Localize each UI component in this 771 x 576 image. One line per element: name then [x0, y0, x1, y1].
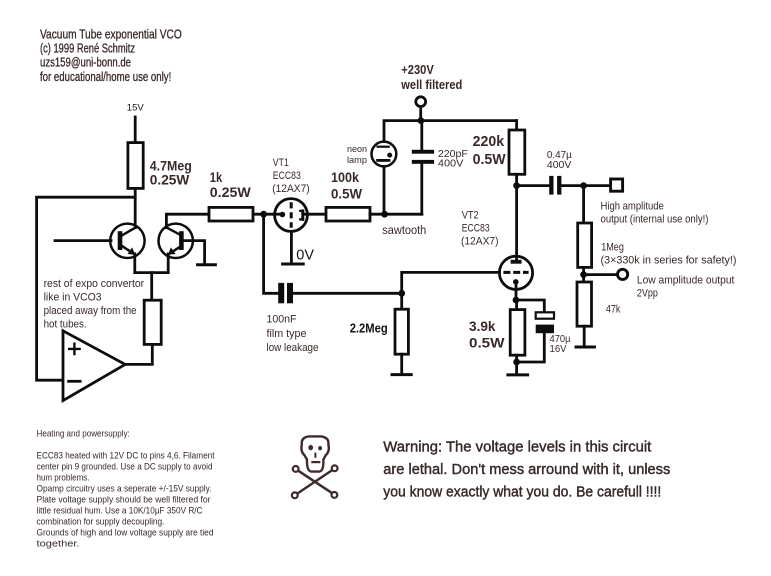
label low amplitude output [637, 275, 735, 300]
label neon lamp [347, 144, 367, 166]
wire Q2 base to ground [184, 241, 205, 264]
svg-text:400V: 400V [547, 160, 572, 171]
node junction below 1k [260, 211, 267, 218]
label title block [40, 27, 182, 84]
label 4.7Meg 0.25W [150, 157, 192, 187]
node after coupling cap [580, 182, 587, 189]
terminal +230V [416, 97, 426, 121]
svg-text:0V: 0V [296, 247, 314, 263]
svg-text:Opamp circuitry uses a seperat: Opamp circuitry uses a seperate +/-15V s… [37, 483, 212, 494]
node grid junction [398, 290, 405, 297]
label high amplitude output [601, 200, 709, 225]
wire Q2 collector to 1k [166, 214, 209, 227]
label 220pF 400V [438, 148, 468, 169]
svg-text:VT2: VT2 [462, 210, 479, 222]
label warning text [383, 438, 670, 500]
wire to low amplitude terminal [584, 273, 618, 276]
svg-text:you know exactly what you do.: you know exactly what you do. Be careful… [383, 484, 661, 501]
svg-text:Warning: The voltage levels in: Warning: The voltage levels in this circ… [383, 438, 652, 455]
svg-text:well filtered: well filtered [400, 78, 462, 92]
wire 100k to sawtooth node [370, 213, 422, 216]
label heating and powersupply note [37, 429, 215, 550]
svg-text:output (internal use only!): output (internal use only!) [601, 213, 709, 225]
resistor 100k 0.5W [326, 207, 370, 221]
ground 47k [576, 346, 594, 349]
svg-text:lamp: lamp [347, 155, 367, 166]
resistor 4.7Meg 0.25W [128, 143, 143, 189]
svg-text:2Vpp: 2Vpp [637, 288, 658, 300]
icon skull and crossbones [292, 436, 338, 498]
wire junction down to 100nF [264, 214, 279, 293]
svg-text:sawtooth: sawtooth [382, 225, 426, 237]
resistor 220k 0.5W [509, 121, 525, 186]
resistor 47k [577, 282, 592, 345]
node below 220k [513, 182, 520, 189]
terminal high amplitude output [611, 179, 623, 191]
svg-text:uzs159@uni-bonn.de: uzs159@uni-bonn.de [40, 55, 131, 69]
svg-text:High amplitude: High amplitude [601, 200, 664, 212]
wire resistor bottom to Q1 collector [134, 188, 137, 227]
svg-text:Low amplitude output: Low amplitude output [637, 275, 735, 287]
ground 3.9k [508, 373, 528, 376]
wire VT2 grid from 100nF node [402, 272, 500, 293]
node VT2 cathode junction [513, 297, 520, 304]
svg-text:(12AX7): (12AX7) [272, 183, 310, 195]
svg-text:neon: neon [347, 144, 367, 155]
wire Q1 base stub [55, 239, 111, 242]
svg-text:220k: 220k [473, 133, 505, 150]
node below 3.9k [513, 359, 520, 366]
svg-text:47k: 47k [606, 303, 621, 315]
svg-text:placed away from the: placed away from the [44, 305, 137, 317]
svg-text:1k: 1k [210, 169, 223, 185]
terminal low amplitude output [618, 269, 628, 279]
label VT2 ECC83 (12AX7) [461, 210, 499, 248]
svg-text:together.: together. [37, 538, 80, 549]
svg-text:3.9k: 3.9k [469, 318, 496, 334]
triode VT2 [499, 256, 532, 300]
wire cathode node to 470u [516, 300, 544, 312]
svg-text:0.25W: 0.25W [150, 172, 190, 188]
wire neon lamp top to HT rail [384, 121, 517, 142]
label 1k 0.25W [210, 169, 252, 200]
node below 1Meg [580, 271, 587, 278]
label 3.9k 0.5W [469, 318, 505, 351]
node HT rail junction [418, 117, 425, 124]
label 470u 16V [550, 334, 571, 355]
svg-text:for educational/home use only!: for educational/home use only! [40, 70, 171, 84]
svg-text:0.5W: 0.5W [331, 186, 363, 202]
svg-text:hot tubes.: hot tubes. [44, 318, 87, 330]
node 15V supply stub [134, 117, 137, 143]
wire sawtooth node up to 220pF [420, 164, 423, 215]
svg-text:like in VCO3: like in VCO3 [44, 291, 102, 303]
svg-text:are lethal. Don't mess arround: are lethal. Don't mess arround with it, … [383, 461, 670, 478]
svg-text:film type: film type [267, 328, 307, 340]
svg-text:(3×330k in series for safety!): (3×330k in series for safety!) [601, 255, 737, 267]
svg-text:center pin 9 grounded. Use a D: center pin 9 grounded. Use a DC supply t… [37, 461, 213, 472]
resistor 3.9k 0.5W [510, 300, 525, 373]
label VT1 ECC83 (12AX7) [272, 157, 310, 195]
capacitor 100nF film [278, 283, 402, 303]
label 220k 0.5W [473, 133, 507, 168]
svg-text:2.2Meg: 2.2Meg [350, 322, 388, 336]
wire VT1 grid to 0V ground [290, 231, 293, 262]
svg-text:0.5W: 0.5W [469, 335, 505, 351]
wire VT2 plate drop [515, 186, 518, 260]
ground 2.2Meg [392, 373, 411, 376]
label 100k 0.5W [331, 169, 363, 201]
svg-text:400V: 400V [438, 158, 464, 170]
svg-text:0.5W: 0.5W [473, 151, 507, 168]
resistor 100k 0.25W [144, 300, 161, 344]
ground Q2 base [198, 263, 216, 266]
svg-text:Plate voltage supply should be: Plate voltage supply should be well filt… [37, 494, 211, 505]
label +230V well filtered [400, 63, 462, 92]
resistor 1Meg [578, 186, 592, 282]
svg-text:ECC83 heated with 12V DC to pi: ECC83 heated with 12V DC to pins 4,6. Fi… [37, 450, 215, 461]
svg-text:1Meg: 1Meg [601, 242, 624, 254]
svg-text:little residual hum. Use a 10K: little residual hum. Use a 10K/10µF 350V… [37, 505, 203, 516]
label 0.47u 400V [547, 150, 572, 171]
svg-text:ECC83: ECC83 [273, 170, 301, 182]
svg-text:(12AX7): (12AX7) [461, 236, 499, 248]
svg-text:rest of expo convertor: rest of expo convertor [44, 278, 145, 290]
node sawtooth [381, 211, 388, 218]
wire 1k to VT1 [253, 213, 280, 216]
svg-text:16V: 16V [550, 344, 567, 355]
capacitor 470u 16V electrolytic [517, 312, 554, 362]
svg-text:VT1: VT1 [273, 157, 289, 169]
svg-text:Grounds of high and low voltag: Grounds of high and low voltage supply a… [37, 527, 214, 538]
neon lamp [372, 142, 397, 167]
label 100nF film type low leakage [267, 313, 319, 354]
label expo convertor note [44, 278, 145, 331]
svg-text:100k: 100k [331, 169, 359, 185]
wire emitters junction rail [135, 271, 168, 274]
label 1Meg note [601, 242, 737, 267]
svg-text:15V: 15V [127, 103, 145, 114]
svg-text:Vacuum Tube exponential VCO: Vacuum Tube exponential VCO [40, 27, 182, 41]
svg-text:Heating and powersupply:: Heating and powersupply: [37, 429, 130, 440]
resistor 2.2Meg [395, 293, 408, 373]
transistor Q2 [159, 224, 193, 273]
svg-text:hum problems.: hum problems. [37, 472, 90, 483]
wire neon lamp bottom [383, 167, 386, 215]
wire emitter rail down to 100k [150, 273, 153, 301]
svg-text:combination for supply decoupl: combination for supply decoupling. [37, 516, 165, 527]
op-amp tube VT1 triode [275, 199, 326, 232]
svg-text:low leakage: low leakage [267, 342, 319, 354]
svg-text:+230V: +230V [401, 63, 434, 77]
svg-text:ECC83: ECC83 [462, 223, 490, 235]
capacitor 220pF 400V [412, 121, 434, 164]
wire 100k to opamp output [125, 344, 152, 364]
ground 0V [283, 263, 304, 266]
op-amp U1 [63, 331, 125, 401]
svg-text:(c) 1999 René Schmitz: (c) 1999 René Schmitz [40, 41, 135, 55]
resistor 1k 0.25W [209, 207, 253, 221]
svg-text:100nF: 100nF [267, 313, 297, 325]
wire feedback from collector node to opamp inverting input [37, 197, 136, 380]
capacitor 0.47u 400V [517, 176, 611, 195]
transistor Q1 [110, 224, 144, 273]
svg-text:0.25W: 0.25W [210, 184, 252, 200]
